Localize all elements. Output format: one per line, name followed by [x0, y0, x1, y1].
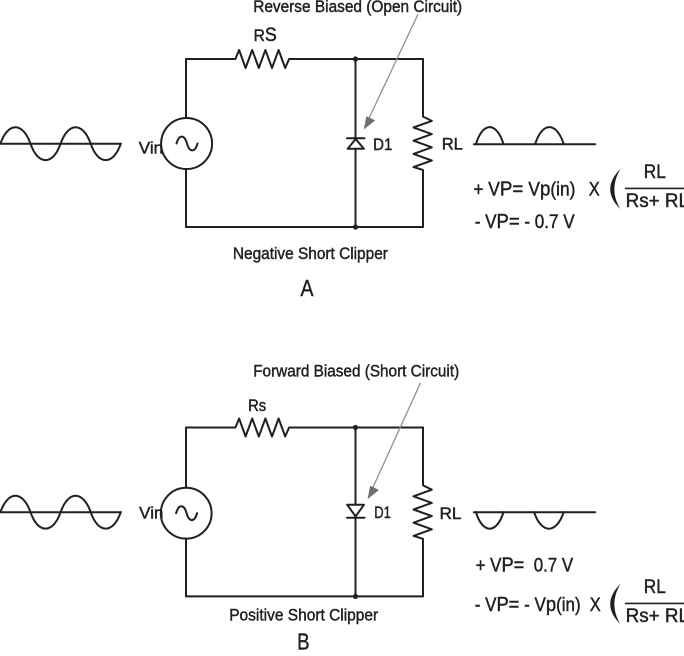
svg-text:Rs+ RL: Rs+ RL	[626, 606, 684, 627]
svg-text:Vin: Vin	[139, 503, 163, 522]
svg-text:Forward Biased (Short Circuit): Forward Biased (Short Circuit)	[253, 361, 459, 380]
svg-text:RL: RL	[442, 135, 463, 154]
svg-text:Rs: Rs	[248, 396, 266, 415]
svg-text:RL: RL	[644, 577, 666, 598]
svg-text:X: X	[590, 595, 601, 616]
svg-text:- VP= - Vp(in): - VP= - Vp(in)	[475, 593, 581, 616]
svg-text:A: A	[301, 275, 315, 301]
svg-text:X: X	[589, 180, 600, 201]
svg-text:B: B	[297, 629, 310, 655]
svg-text:Positive Short Clipper: Positive Short Clipper	[229, 606, 378, 625]
svg-text:RS: RS	[254, 24, 277, 46]
svg-text:D1: D1	[374, 503, 391, 522]
svg-text:RL: RL	[440, 504, 462, 523]
svg-text:RL: RL	[644, 162, 666, 183]
svg-text:Vin: Vin	[139, 139, 163, 158]
svg-text:Negative Short Clipper: Negative Short Clipper	[233, 244, 388, 263]
svg-text:Reverse Biased (Open Circuit): Reverse Biased (Open Circuit)	[253, 0, 462, 16]
svg-text:+ VP= Vp(in): + VP= Vp(in)	[473, 178, 575, 201]
svg-text:+ VP= 0.7 V: + VP= 0.7 V	[476, 554, 574, 577]
svg-text:D1: D1	[373, 135, 392, 154]
svg-text:Rs+ RL: Rs+ RL	[626, 191, 684, 212]
svg-text:- VP= - 0.7 V: - VP= - 0.7 V	[475, 210, 575, 233]
